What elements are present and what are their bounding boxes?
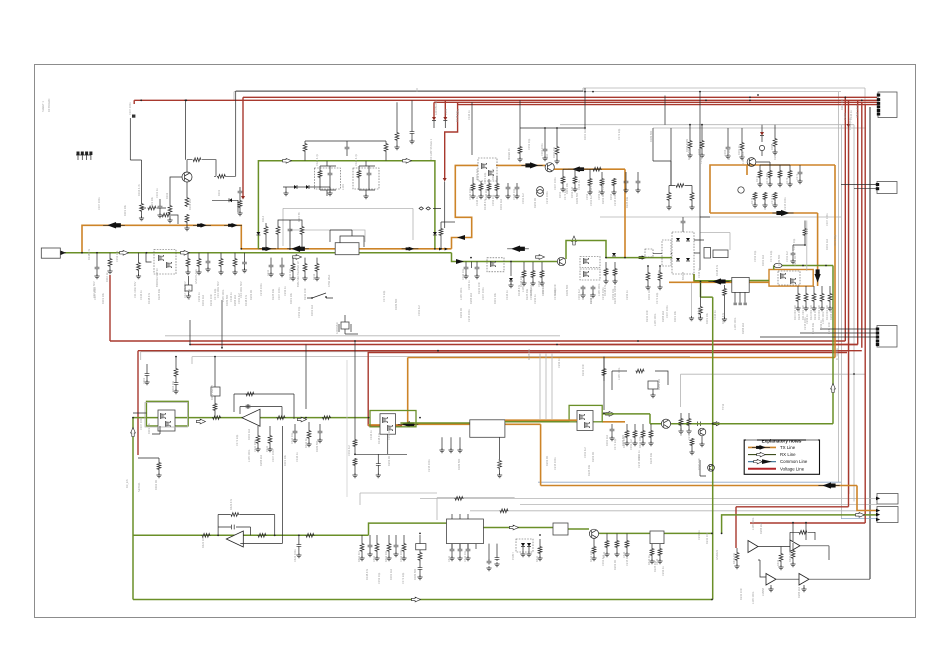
resistor R3 [185, 197, 189, 207]
svg-text:R225 33k: R225 33k [271, 288, 275, 300]
svg-text:C152 10p: C152 10p [527, 138, 531, 150]
svg-text:C144 1n: C144 1n [475, 196, 479, 206]
svg-text:GND PLANE: GND PLANE [194, 269, 198, 284]
resistor row below Q1 [148, 206, 157, 210]
op-amp U21 [748, 541, 758, 553]
tx riser from main line x82 [82, 225, 452, 253]
svg-text:R161 1k2: R161 1k2 [310, 304, 314, 316]
svg-text:R432: R432 [776, 559, 780, 566]
svg-text:C144 1n: C144 1n [505, 290, 509, 300]
svg-text:C144 1n: C144 1n [577, 180, 581, 190]
svg-text:R119 10k: R119 10k [289, 292, 293, 304]
opamp U14 feedback [218, 515, 230, 536]
svg-text:R148 47k: R148 47k [244, 294, 248, 306]
svg-text:R266 2k2: R266 2k2 [797, 586, 801, 598]
svg-text:C401: C401 [372, 555, 376, 562]
svg-text:C191 4u7: C191 4u7 [497, 458, 501, 470]
svg-text:R431 10k: R431 10k [732, 552, 736, 564]
belt rc right [522, 270, 526, 278]
svg-text:R10 0R1 1W: R10 0R1 1W [793, 305, 797, 320]
tx orange on y424.9 bundle [368, 424, 400, 426]
svg-text:R241 10R: R241 10R [727, 148, 731, 160]
svg-text:R148 47k: R148 47k [365, 568, 369, 580]
svg-text:L103: L103 [341, 184, 345, 190]
svg-text:C233 1n: C233 1n [819, 320, 823, 330]
svg-text:R203 0R: R203 0R [589, 294, 593, 304]
diode D11 on red drop [241, 196, 245, 200]
voltage step x457 [445, 102, 458, 178]
svg-text:R266 2k2: R266 2k2 [661, 310, 665, 322]
op-amp U24 [799, 574, 809, 586]
svg-text:C301: C301 [142, 377, 146, 384]
svg-text:C215 100n: C215 100n [545, 191, 549, 204]
svg-text:L105 100n: L105 100n [597, 283, 601, 296]
svg-text:R183 560: R183 560 [394, 298, 398, 310]
gray frame around bottom mid [360, 493, 515, 520]
svg-text:C131: C131 [266, 269, 270, 276]
ladder under rx right [625, 430, 629, 438]
svg-text:R161 1k2: R161 1k2 [201, 294, 205, 306]
svg-text:C191 4u7: C191 4u7 [521, 192, 525, 204]
svg-text:R161 1k2: R161 1k2 [605, 434, 609, 446]
wire top-left net [130, 118, 141, 196]
connector J4 [877, 494, 898, 505]
wire q1 collector [187, 160, 192, 172]
wire y454.3 [355, 453, 407, 455]
cap C51 hang [146, 364, 148, 372]
resistor R10 [300, 226, 304, 235]
under green caps mid [318, 430, 323, 435]
svg-text:C144 1n: C144 1n [295, 452, 299, 462]
legend voltage line [748, 468, 776, 470]
svg-text:C152 10p: C152 10p [187, 288, 191, 300]
svg-text:C171 22p: C171 22p [617, 128, 621, 140]
svg-text:R106 220: R106 220 [188, 198, 192, 210]
svg-text:C215 100n: C215 100n [783, 197, 787, 210]
wire legend-left parts [700, 460, 706, 476]
resistor R61 [353, 439, 357, 447]
svg-text:R203 0R: R203 0R [387, 456, 391, 466]
svg-text:R161 1k2: R161 1k2 [475, 168, 479, 180]
parts right of cluster3 [679, 418, 683, 426]
orange mid bundle arrow [398, 423, 419, 425]
svg-text:R119 10k: R119 10k [493, 292, 497, 304]
gray h-lines to right connectors [420, 498, 877, 510]
svg-text:C215 100n: C215 100n [687, 427, 691, 440]
mosfet M2 cluster [478, 158, 497, 181]
svg-text:LM358: LM358 [761, 588, 765, 596]
long wire x665 [664, 96, 666, 125]
transistor Q32 [589, 529, 598, 538]
verticals from red bundle up [190, 300, 355, 439]
svg-text:K301 RELAY: K301 RELAY [210, 385, 214, 400]
svg-text:R167 1k: R167 1k [737, 145, 741, 155]
svg-text:C411: C411 [447, 555, 451, 562]
ladder under rx bottom [360, 543, 364, 552]
svg-text:C107 100n: C107 100n [93, 287, 97, 300]
junction dots [81, 252, 83, 254]
bottom mid vertical [489, 544, 497, 560]
svg-text:VBAT 12V6: VBAT 12V6 [855, 104, 859, 118]
junction diamonds [419, 207, 441, 210]
rx top loop [258, 161, 435, 249]
power bank resistors [796, 293, 800, 302]
rx open arrows main [120, 250, 129, 255]
connector J2 [877, 182, 897, 194]
svg-text:R241 10R: R241 10R [645, 310, 649, 322]
wire crystal [345, 333, 358, 335]
resistor R11 above loop [303, 143, 307, 152]
long vertical x671 [670, 128, 672, 185]
svg-text:R241 10R: R241 10R [813, 308, 817, 320]
svg-text:C191 4u7: C191 4u7 [583, 446, 587, 458]
svg-text:R_SENSE: R_SENSE [835, 348, 839, 360]
svg-text:R266 2k2: R266 2k2 [759, 522, 763, 534]
rx bottom loop [133, 599, 712, 601]
svg-text:R401 4k7: R401 4k7 [357, 550, 361, 562]
svg-text:C136: C136 [537, 280, 541, 287]
svg-text:C107 100n: C107 100n [277, 287, 281, 300]
svg-text:R304 10k: R304 10k [171, 380, 175, 392]
bridge wires [653, 240, 704, 254]
rx bottom arrows [197, 419, 206, 424]
gray vertical bus right x841 [839, 92, 842, 519]
svg-text:R225 33k: R225 33k [811, 322, 815, 334]
optocoupler U6 [516, 539, 533, 552]
ic U1 on main line [335, 243, 359, 255]
svg-text:C422 100n: C422 100n [293, 549, 297, 562]
top mid gray wire y68 [416, 88, 418, 92]
cluster x690-710 [698, 428, 706, 436]
svg-text:C152 10p: C152 10p [792, 238, 796, 250]
rx signal via x721 to right [722, 515, 877, 534]
wire R2 right [226, 91, 583, 176]
svg-text:C107 100n: C107 100n [481, 287, 485, 300]
svg-text:R13 0R1 1W: R13 0R1 1W [817, 305, 821, 320]
input connector J0 [41, 248, 60, 258]
svg-text:R119 10k: R119 10k [673, 310, 677, 322]
resistor R12 above loop [384, 143, 388, 152]
belt right caps [464, 266, 469, 271]
gray tail of red [138, 458, 159, 462]
svg-text:R203 0R: R203 0R [459, 308, 463, 318]
svg-text:R183 560: R183 560 [413, 568, 417, 580]
resistor R13 [439, 228, 443, 236]
rf right components [588, 178, 592, 186]
svg-text:R241 10R: R241 10R [697, 458, 701, 470]
tx big down arrow x817 [817, 213, 819, 286]
svg-text:C107 100n: C107 100n [825, 213, 829, 226]
svg-text:0.5W MAX: 0.5W MAX [327, 274, 331, 287]
junction on rail A [749, 99, 751, 101]
svg-text:C215 100n: C215 100n [553, 457, 557, 470]
svg-text:C171 22p: C171 22p [401, 572, 405, 584]
gray stub y460 [346, 360, 348, 497]
resistor R31 on tx [593, 167, 602, 171]
svg-text:C215 100n: C215 100n [259, 283, 263, 296]
svg-text:R203 0R: R203 0R [533, 198, 537, 208]
belt caps left [269, 264, 274, 269]
svg-text:C152: C152 [585, 193, 589, 200]
opamp U12 feedback [234, 394, 294, 419]
rx through bridge [694, 274, 732, 281]
cap group y285 [581, 286, 586, 291]
svg-text:C191 4u7: C191 4u7 [237, 292, 241, 304]
svg-text:R266 2k2: R266 2k2 [657, 378, 661, 390]
resistor R41 on rx [212, 416, 221, 420]
opamp res horiz [799, 530, 808, 534]
rc tank pair 2 [353, 168, 379, 189]
svg-text:C144 1n: C144 1n [139, 290, 143, 300]
opamp wiring [758, 546, 870, 579]
svg-text:R203 0R: R203 0R [679, 426, 683, 436]
svg-text:R104 4.7k: R104 4.7k [137, 183, 141, 196]
junction dots bus [584, 91, 586, 93]
diode D13 [443, 117, 447, 121]
svg-text:R119 10k: R119 10k [283, 454, 287, 466]
svg-text:C107 100n: C107 100n [665, 305, 669, 318]
cap C44 [298, 535, 300, 543]
junction x585 [584, 127, 586, 129]
stubs under U13 [442, 437, 460, 450]
diode D12 [432, 117, 436, 121]
svg-text:+3V3: +3V3 [444, 108, 448, 115]
rx bottom open arrow [510, 525, 519, 530]
svg-text:R183 560: R183 560 [649, 130, 653, 142]
parts right of opto [538, 546, 542, 554]
wire from rail to R1 [184, 100, 186, 159]
svg-text:C215 100n: C215 100n [467, 309, 471, 322]
cap C6 above loop [345, 146, 350, 151]
gray loop above U18 [701, 233, 731, 251]
gray drop x540-552 [540, 354, 552, 419]
svg-text:R302 0R: R302 0R [154, 480, 158, 490]
op-amp U22 [790, 540, 800, 552]
cluster q4 parts [758, 170, 762, 178]
resistor R17 [700, 140, 704, 149]
box U18 right of bridge [713, 250, 728, 258]
orange to right power cluster [749, 281, 769, 283]
resistor R63 [499, 437, 501, 460]
svg-text:C171 22p: C171 22p [833, 234, 837, 246]
svg-text:R148 47k: R148 47k [377, 432, 381, 444]
svg-text:BFR93A SOT23: BFR93A SOT23 [155, 268, 159, 287]
small parts near x606 bottom [602, 368, 606, 376]
long vertical x282 [282, 426, 284, 470]
svg-text:R203 0R: R203 0R [793, 256, 797, 266]
cluster q4 lower [753, 192, 757, 200]
svg-text:R183 560: R183 560 [457, 458, 461, 470]
svg-text:C215 100n: C215 100n [427, 459, 431, 472]
wire M2 down [473, 176, 497, 183]
wire y128 stub [520, 127, 585, 129]
svg-text:C171: C171 [795, 173, 799, 180]
svg-text:C122 4.7p: C122 4.7p [354, 153, 358, 166]
cap above bridge [681, 220, 686, 225]
drawing sheet border [35, 65, 916, 618]
svg-text:L105 100n: L105 100n [221, 289, 225, 302]
svg-text:R225 33k: R225 33k [527, 348, 531, 360]
wires to J3 [760, 329, 877, 337]
svg-text:Common Line: Common Line [780, 459, 808, 464]
svg-text:R266 2k2: R266 2k2 [829, 308, 833, 320]
op-amp U14 [226, 531, 243, 547]
svg-text:L105 100n: L105 100n [733, 317, 737, 330]
resistor R19 [773, 138, 777, 147]
svg-text:R183 560: R183 560 [315, 440, 319, 452]
ladder right bottom [605, 540, 609, 548]
svg-text:R110 1k: R110 1k [105, 272, 109, 282]
junction green [825, 265, 827, 267]
svg-text:C153 1n: C153 1n [597, 190, 601, 200]
svg-text:C107 100n: C107 100n [271, 449, 275, 462]
svg-text:R152 470: R152 470 [570, 186, 574, 198]
svg-text:R172 560: R172 560 [765, 172, 769, 184]
svg-text:C215 100n: C215 100n [803, 317, 807, 330]
resistor R2 [217, 174, 226, 178]
svg-text:R119 10k: R119 10k [705, 312, 709, 324]
rx diode mid [612, 253, 616, 256]
svg-text:R203 0R: R203 0R [773, 198, 777, 208]
svg-text:R266 2k2: R266 2k2 [773, 148, 777, 160]
wire R1 to node [202, 160, 216, 177]
hang cap top-center [411, 100, 413, 130]
svg-text:R266 2k2: R266 2k2 [741, 322, 745, 334]
resistor R42 on rx [277, 416, 286, 420]
svg-text:C191 4u7: C191 4u7 [629, 438, 633, 450]
small box U19 [704, 248, 711, 259]
svg-text:R148 47k: R148 47k [455, 110, 459, 122]
svg-text:R225 33k: R225 33k [797, 308, 801, 320]
svg-text:R161 1k2: R161 1k2 [499, 198, 503, 210]
mosfet M4 pair [580, 257, 600, 268]
svg-text:R115 56: R115 56 [297, 212, 301, 222]
crystal X1 [341, 322, 349, 329]
voltage vertical x243 upper [242, 97, 244, 196]
svg-text:R119 10k: R119 10k [565, 182, 569, 194]
svg-text:R225 33k: R225 33k [687, 148, 691, 160]
svg-text:C107 100n: C107 100n [139, 417, 143, 430]
voltage rail D y104.6 [138, 103, 877, 351]
svg-text:C233 1n: C233 1n [197, 292, 201, 302]
svg-text:R12 0R1 1W: R12 0R1 1W [809, 305, 813, 320]
svg-text:C233 1n: C233 1n [625, 290, 629, 300]
svg-text:R173: R173 [785, 177, 789, 184]
svg-text:PC817: PC817 [511, 552, 515, 560]
comb symbol [76, 155, 91, 160]
svg-text:R225 33k: R225 33k [587, 464, 591, 476]
svg-text:R148 47k: R148 47k [715, 264, 719, 276]
resistor R51 hang [175, 357, 177, 368]
svg-text:R119 10k: R119 10k [840, 98, 844, 110]
orange stub at mosfet cluster3 [602, 274, 732, 422]
tx arrows on upper branch [103, 224, 125, 226]
svg-text:L105 100n: L105 100n [741, 151, 745, 164]
svg-text:BAS28: BAS28 [681, 271, 685, 280]
mosfet box M5 [380, 414, 396, 435]
svg-text:C143 100n: C143 100n [468, 187, 472, 200]
resistor R18 [740, 142, 744, 151]
svg-text:R225 33k: R225 33k [613, 292, 617, 304]
tx through rf cluster [496, 165, 625, 257]
rx bundle to cluster3 [505, 421, 569, 423]
wire q4 [756, 162, 790, 170]
red diode D2 [761, 125, 763, 132]
rx opamp2 output line [133, 523, 447, 535]
svg-text:C402 100n: C402 100n [399, 549, 403, 562]
legend common line [748, 461, 776, 463]
svg-text:C215 100n: C215 100n [613, 193, 617, 206]
svg-text:PWR1: PWR1 [843, 112, 847, 120]
rx green box cluster1 [147, 401, 189, 426]
svg-text:C171 22p: C171 22p [769, 250, 773, 262]
svg-text:C191 4u7: C191 4u7 [589, 194, 593, 206]
svg-text:R266 2k2: R266 2k2 [259, 454, 263, 466]
gray long vertical x870 [869, 107, 871, 579]
rx green box cluster3 [569, 405, 602, 421]
gray horizontal y344.5 [190, 344, 858, 346]
svg-text:C107 100n: C107 100n [553, 177, 557, 190]
svg-text:R241 10R: R241 10R [477, 282, 481, 294]
transistor Q2 [545, 163, 554, 172]
svg-text:C152 10p: C152 10p [377, 572, 381, 584]
opamp resistors [735, 552, 739, 561]
gray horizontal y374 mid [681, 374, 866, 407]
svg-text:R311: R311 [265, 445, 269, 452]
belt far right [604, 268, 608, 276]
cap C1 [158, 205, 163, 210]
opamp U14 plus input [240, 470, 282, 543]
cluster x186-246 under main [186, 258, 190, 267]
svg-text:R148 47k: R148 47k [87, 248, 91, 260]
mosfet box M6 [577, 411, 593, 431]
svg-text:R183 560: R183 560 [225, 294, 229, 306]
tx staircase to rf section [452, 165, 479, 248]
svg-text:R225 33k: R225 33k [625, 196, 629, 208]
caps under rx bottom [368, 544, 373, 549]
svg-text:R161 1k2: R161 1k2 [541, 284, 545, 296]
svg-text:R119 10k: R119 10k [150, 196, 154, 208]
svg-text:C145 10p: C145 10p [512, 188, 516, 200]
svg-text:C144 1n: C144 1n [369, 430, 373, 440]
connector J3 [877, 326, 897, 348]
resistor R4 [140, 203, 144, 212]
svg-text:R143 2k2: R143 2k2 [484, 188, 488, 200]
svg-text:R183 560: R183 560 [575, 192, 579, 204]
svg-text:R266 2k2: R266 2k2 [469, 292, 473, 304]
mosfets in cluster1 [158, 410, 175, 431]
svg-text:L105 100n: L105 100n [247, 449, 251, 462]
svg-text:Explanatory notes: Explanatory notes [762, 438, 802, 443]
svg-text:C191 4u7: C191 4u7 [601, 554, 605, 566]
wires x441 [441, 221, 455, 223]
caps under cluster3 [610, 428, 615, 433]
svg-text:R165: R165 [697, 148, 701, 155]
svg-text:RF BOARD: RF BOARD [47, 98, 51, 112]
svg-text:R203 0R: R203 0R [545, 456, 549, 466]
svg-text:C233 1n: C233 1n [467, 280, 471, 290]
gray drop x806 [806, 221, 808, 272]
svg-text:C12 100n 50V: C12 100n 50V [183, 281, 187, 298]
svg-text:R161 1k2: R161 1k2 [389, 568, 393, 580]
gray horizontal y335.8 [165, 335, 560, 337]
svg-text:R132: R132 [312, 273, 316, 280]
resistor R201 on gray line [455, 497, 464, 501]
svg-text:R241 10R: R241 10R [705, 532, 709, 544]
rx green box cluster2 [370, 411, 416, 427]
verticals from rail to rf [472, 88, 585, 155]
voltage stub x445 diode [444, 100, 446, 117]
